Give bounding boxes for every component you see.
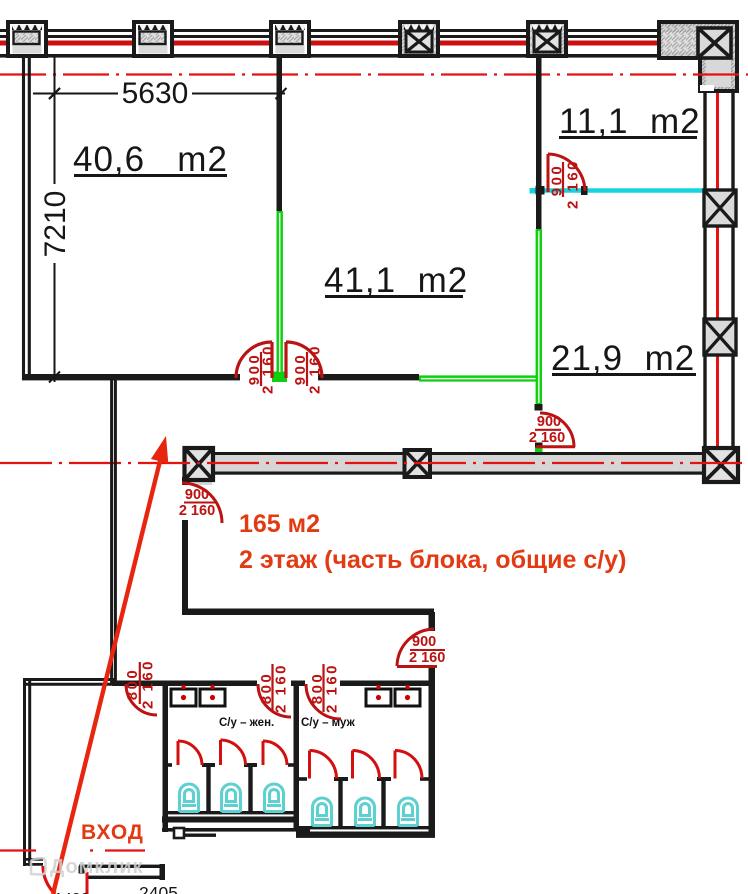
middle band column M1 — [182, 448, 213, 485]
door B labels rotated — [246, 344, 277, 394]
column K4 cross type — [400, 22, 438, 56]
women stall stub right — [288, 763, 296, 767]
women toilet 3 — [265, 784, 284, 812]
middle band column M2 — [405, 450, 431, 477]
red axis dash-dot line middle — [0, 462, 748, 464]
bottom-left door red leaf — [43, 866, 55, 894]
partition wall right green lower part — [536, 229, 542, 405]
door A arc at cyan partition — [548, 154, 585, 192]
partition wall 40.6/41.1 green lower part — [277, 211, 283, 374]
svg-text:2 160: 2 160 — [529, 430, 565, 446]
column K2 — [134, 22, 172, 56]
men stall door 1 — [310, 751, 337, 779]
top band wall line upper1 — [0, 29, 659, 32]
svg-text:С/у – жен.: С/у – жен. — [219, 717, 274, 729]
women bottom wall — [162, 817, 299, 823]
partition wall 40.6/41.1 black upper part — [277, 57, 283, 211]
partition wall 41.1 right black upper part — [536, 57, 542, 229]
red axis dash-dot line top — [0, 73, 748, 75]
svg-text:11,1 m2: 11,1 m2 — [559, 102, 701, 141]
right wall vertical (double black + red axis) — [705, 91, 733, 452]
watermark domclick — [31, 856, 144, 878]
svg-text:С/у – муж: С/у – муж — [301, 717, 356, 729]
door F labels — [409, 634, 445, 666]
middle band wall grey body — [186, 454, 738, 473]
svg-text:41,1 m2: 41,1 m2 — [324, 261, 468, 300]
right wall column X1 — [704, 190, 736, 226]
corner column top-right — [659, 22, 737, 91]
svg-text:21,9 m2: 21,9 m2 — [551, 339, 695, 378]
door D arc room 21.9 — [536, 413, 575, 447]
room label 41.1 — [324, 261, 468, 300]
dimension 5630 line — [33, 88, 287, 99]
entry room top wall (double) — [23, 680, 116, 685]
svg-text:2 160: 2 160 — [273, 663, 290, 713]
svg-text:2 160: 2 160 — [409, 650, 445, 666]
svg-text:40,6 m2: 40,6 m2 — [73, 140, 228, 179]
svg-text:165 м2: 165 м2 — [239, 510, 320, 538]
women toilet 2 — [222, 784, 241, 812]
svg-text:2 160: 2 160 — [565, 159, 582, 209]
bathroom top wall — [112, 681, 257, 687]
bathroom door 1 labels rotated — [124, 659, 157, 709]
top band wall line upper2 — [0, 35, 659, 38]
wall left of 165 area below door E — [182, 520, 188, 612]
svg-text:2 160: 2 160 — [179, 503, 215, 519]
men bottom wall — [296, 832, 435, 838]
room label 21.9 — [551, 339, 696, 378]
svg-text:ВХОД: ВХОД — [81, 821, 144, 844]
women toilet 1 — [180, 784, 199, 812]
women stall door 1 — [178, 741, 202, 765]
bathroom right wall — [429, 685, 436, 837]
women stall partition 2 — [244, 763, 257, 813]
men toilet 2 — [356, 798, 375, 826]
double door B left leaf — [236, 342, 272, 378]
black jamb at bottom door — [79, 866, 85, 874]
red axis dash-dot line bottom — [0, 849, 160, 851]
green door cap between double doors — [272, 372, 287, 383]
men sink 2 — [395, 685, 420, 706]
men toilet 3 — [399, 798, 418, 826]
room label 11.1 — [559, 102, 701, 141]
svg-text:5630: 5630 — [122, 77, 189, 110]
women sink 2 — [200, 685, 225, 706]
double door C right leaf — [286, 342, 322, 378]
bottom wall of rooms 40.6/41.1 (black) — [22, 374, 240, 380]
women sink 1 — [171, 685, 196, 706]
bathroom door 3 arc — [306, 684, 341, 719]
svg-text:900: 900 — [412, 634, 436, 650]
men toilet 1 — [313, 798, 332, 826]
lower corridor wall joint — [160, 864, 166, 880]
lower door red leaf — [86, 872, 89, 894]
bathroom door 3 labels rotated — [309, 663, 341, 713]
men sink 1 — [366, 685, 391, 706]
green cap at band for door D — [535, 448, 543, 455]
right wall of 165 area upper piece — [429, 612, 436, 631]
svg-text:7210: 7210 — [39, 191, 72, 258]
women stall door 3 — [263, 741, 287, 765]
svg-text:900: 900 — [537, 414, 561, 430]
men stall stub left — [299, 777, 307, 781]
black tick above band green cap — [535, 443, 543, 448]
door E labels — [179, 487, 215, 519]
column K1 — [8, 22, 46, 56]
svg-text:Домклик: Домклик — [50, 856, 144, 878]
women stall partition 1 — [202, 763, 215, 813]
entry room left wall (double) — [25, 678, 30, 866]
women stall stub left — [165, 763, 172, 767]
middle band edges — [186, 452, 738, 455]
middle band corner column M3 — [704, 448, 738, 482]
top band red axis strip — [0, 41, 659, 46]
svg-text:2 160: 2 160 — [324, 663, 341, 713]
cyan glazed partition of room 11.1 — [542, 188, 705, 193]
green wall horizontal under room 41.1 — [419, 375, 541, 381]
bathroom divider wall women/men — [294, 686, 300, 831]
door E arc at corridor column — [182, 483, 222, 523]
black cap at wall/cyan junction — [536, 186, 545, 195]
svg-text:900: 900 — [185, 487, 209, 503]
men stall stub right — [420, 777, 429, 781]
right wall of 165 area lower piece — [429, 668, 436, 685]
svg-text:2 этаж (часть блока, общие с/у: 2 этаж (часть блока, общие с/у) — [239, 546, 626, 574]
men stall floor line — [299, 826, 434, 829]
black tick on cyan line — [581, 186, 588, 195]
lower corridor wall upper line — [79, 865, 163, 868]
entry room bottom wall (double) — [23, 859, 43, 864]
top band wall line lower — [0, 54, 660, 58]
small box bottom-left of bathroom — [174, 828, 184, 838]
svg-text:2 160: 2 160 — [307, 344, 324, 394]
svg-text:2 160: 2 160 — [140, 659, 157, 709]
door C labels rotated — [292, 344, 324, 394]
svg-text:2 160: 2 160 — [260, 344, 277, 394]
black cap at green wall bottom — [535, 404, 543, 411]
column K3 — [271, 22, 309, 56]
bathroom door 1 arc — [126, 684, 157, 715]
left wall of room 40.6 (double line) — [24, 57, 30, 380]
men stall door 2 — [353, 751, 380, 779]
lower corridor wall lower line — [88, 876, 163, 879]
dimension 7210 line — [49, 57, 60, 383]
corridor wall vertical (double line) — [112, 377, 116, 685]
bathroom door 2 labels rotated — [258, 663, 290, 713]
bathroom door 2 arc — [258, 684, 291, 717]
svg-text:2405: 2405 — [139, 883, 178, 894]
column K5 cross type — [528, 22, 566, 56]
bathroom left wall — [163, 682, 169, 832]
women stall floor line — [166, 811, 296, 814]
men stall partition 2 — [377, 777, 391, 827]
men stall partition 1 — [334, 777, 348, 827]
women stall door 2 — [221, 740, 246, 765]
room label 40.6 — [73, 140, 228, 179]
door A labels rotated — [549, 159, 582, 209]
svg-text:800: 800 — [124, 668, 141, 701]
men stall door 3 — [395, 751, 422, 779]
red arrow entrance — [53, 436, 168, 894]
door F arc at 165 area right wall — [397, 629, 437, 667]
door D labels — [529, 414, 565, 446]
right wall column X2 — [704, 319, 736, 355]
bottom wall of 165 area — [182, 609, 434, 616]
